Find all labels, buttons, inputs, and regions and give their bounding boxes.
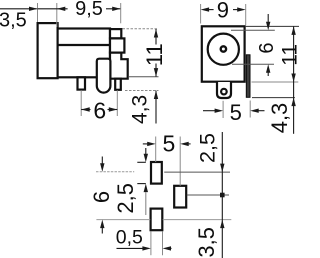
- side view lower housing box3: [110, 53, 128, 79]
- dimension 6 side left arrow: [81, 109, 90, 111]
- ext line 5 front left: [222, 101, 224, 118]
- dimension 3,5 leader arrow: [0, 8, 37, 10]
- ext line 4,3 bottom side: [125, 90, 159, 92]
- ext line 11 front top: [246, 25, 299, 27]
- ext line 3,5 left: [37, 3, 39, 22]
- dimension 2,5 mid lower arrow: [144, 184, 148, 193]
- svg-text:3,5: 3,5: [0, 10, 27, 32]
- side view upper step square1: [110, 29, 121, 38]
- dimension 0,5 left arrow: [117, 247, 145, 249]
- ref line pad2 center right: [187, 194, 229, 196]
- front view barrel circle: [208, 34, 239, 65]
- front view square: [202, 26, 245, 81]
- footprint pad1: [151, 162, 162, 184]
- svg-text:6: 6: [93, 97, 106, 123]
- ext line 0,5 left: [150, 232, 152, 256]
- front view side flange: [246, 55, 250, 98]
- dimension 6 front bottom arrow: [267, 72, 269, 76]
- svg-text:5: 5: [230, 100, 242, 125]
- ext line 9,5 right: [120, 3, 122, 23]
- svg-text:11: 11: [142, 43, 167, 66]
- svg-text:9: 9: [217, 0, 229, 23]
- front view mounting tab: [217, 82, 231, 98]
- dimension 2,5 mid upper arrow: [145, 148, 147, 156]
- dimension 9,5 line left arrow: [38, 8, 68, 10]
- dimension 0,5 right arrow: [169, 247, 172, 249]
- ext line 9 left: [200, 4, 202, 24]
- svg-text:3,5: 3,5: [194, 227, 219, 258]
- svg-text:6: 6: [89, 191, 114, 203]
- ext line 3,5/9,5 shared: [56, 3, 58, 27]
- dimension 11 side line: [155, 29, 157, 45]
- dimension 4,3 side arrow: [155, 91, 157, 124]
- svg-text:2,5: 2,5: [196, 133, 220, 163]
- ext line 6 front bottom: [232, 63, 274, 65]
- dimension 5 fp right arrow: [188, 143, 190, 145]
- svg-text:11: 11: [279, 44, 301, 66]
- dimension 6 fp top arrow: [101, 157, 103, 165]
- dimension 6 side right arrow: [108, 109, 118, 111]
- ref line pad1 center right: [164, 171, 230, 173]
- dimension 11 front line: [293, 26, 295, 82]
- ref line pad3 center left: [96, 219, 150, 221]
- ext line 5 fp right: [179, 137, 181, 186]
- side view rounded center pin capsule: [97, 59, 111, 93]
- side view left pin: [78, 77, 86, 89]
- ext line 6 front top: [231, 29, 275, 31]
- side view front plate: [38, 23, 58, 78]
- svg-text:0,5: 0,5: [116, 227, 143, 249]
- front view tab hole: [221, 89, 227, 95]
- ext line 5 fp left: [155, 137, 157, 163]
- dimension 5 front right arrow: [259, 110, 265, 112]
- square dot node pad2 center: [220, 193, 225, 198]
- ext line 11 top side: [123, 28, 159, 30]
- dimension 2,5/3,5 right column line: [221, 132, 223, 258]
- ext line 11 bottom side: [129, 76, 159, 78]
- front view center pin dot: [221, 46, 226, 51]
- side view right pin: [115, 79, 121, 90]
- side view step square2: [110, 38, 124, 52]
- ext line 9 right: [245, 4, 247, 25]
- ref line pad3 center right: [163, 219, 232, 221]
- svg-text:2,5: 2,5: [113, 183, 138, 214]
- dimension 6 fp bottom arrow: [101, 228, 103, 234]
- ext line 5 front right: [249, 101, 251, 118]
- footprint pad3: [151, 209, 163, 231]
- dimension 5 front left arrow: [203, 110, 215, 112]
- side view body: [58, 29, 110, 78]
- ext line 6 side right pin: [116, 90, 118, 116]
- svg-text:6: 6: [256, 42, 278, 53]
- svg-text:9,5: 9,5: [75, 0, 103, 20]
- ext line 0,5 right: [162, 232, 164, 256]
- dimension 6 front top arrow: [267, 14, 269, 23]
- ext line 11 front bottom: [252, 81, 299, 83]
- ext line 6 side left pin: [80, 90, 82, 116]
- side view body internal line: [58, 44, 110, 46]
- footprint pad2: [174, 186, 186, 208]
- dimension 9 right arrow: [233, 9, 238, 11]
- ext line 4,3 front bottom: [252, 97, 295, 99]
- dimension 9,5 line right arrow: [106, 8, 120, 10]
- svg-text:4,3: 4,3: [129, 95, 152, 124]
- dimension 5 fp left arrow: [143, 143, 148, 145]
- dimension 4,3 front line: [293, 82, 295, 134]
- svg-text:5: 5: [163, 131, 176, 157]
- dimension 9 left arrow: [209, 9, 214, 11]
- svg-text:4,3: 4,3: [267, 103, 292, 134]
- ref line pad1 center left: [96, 171, 134, 173]
